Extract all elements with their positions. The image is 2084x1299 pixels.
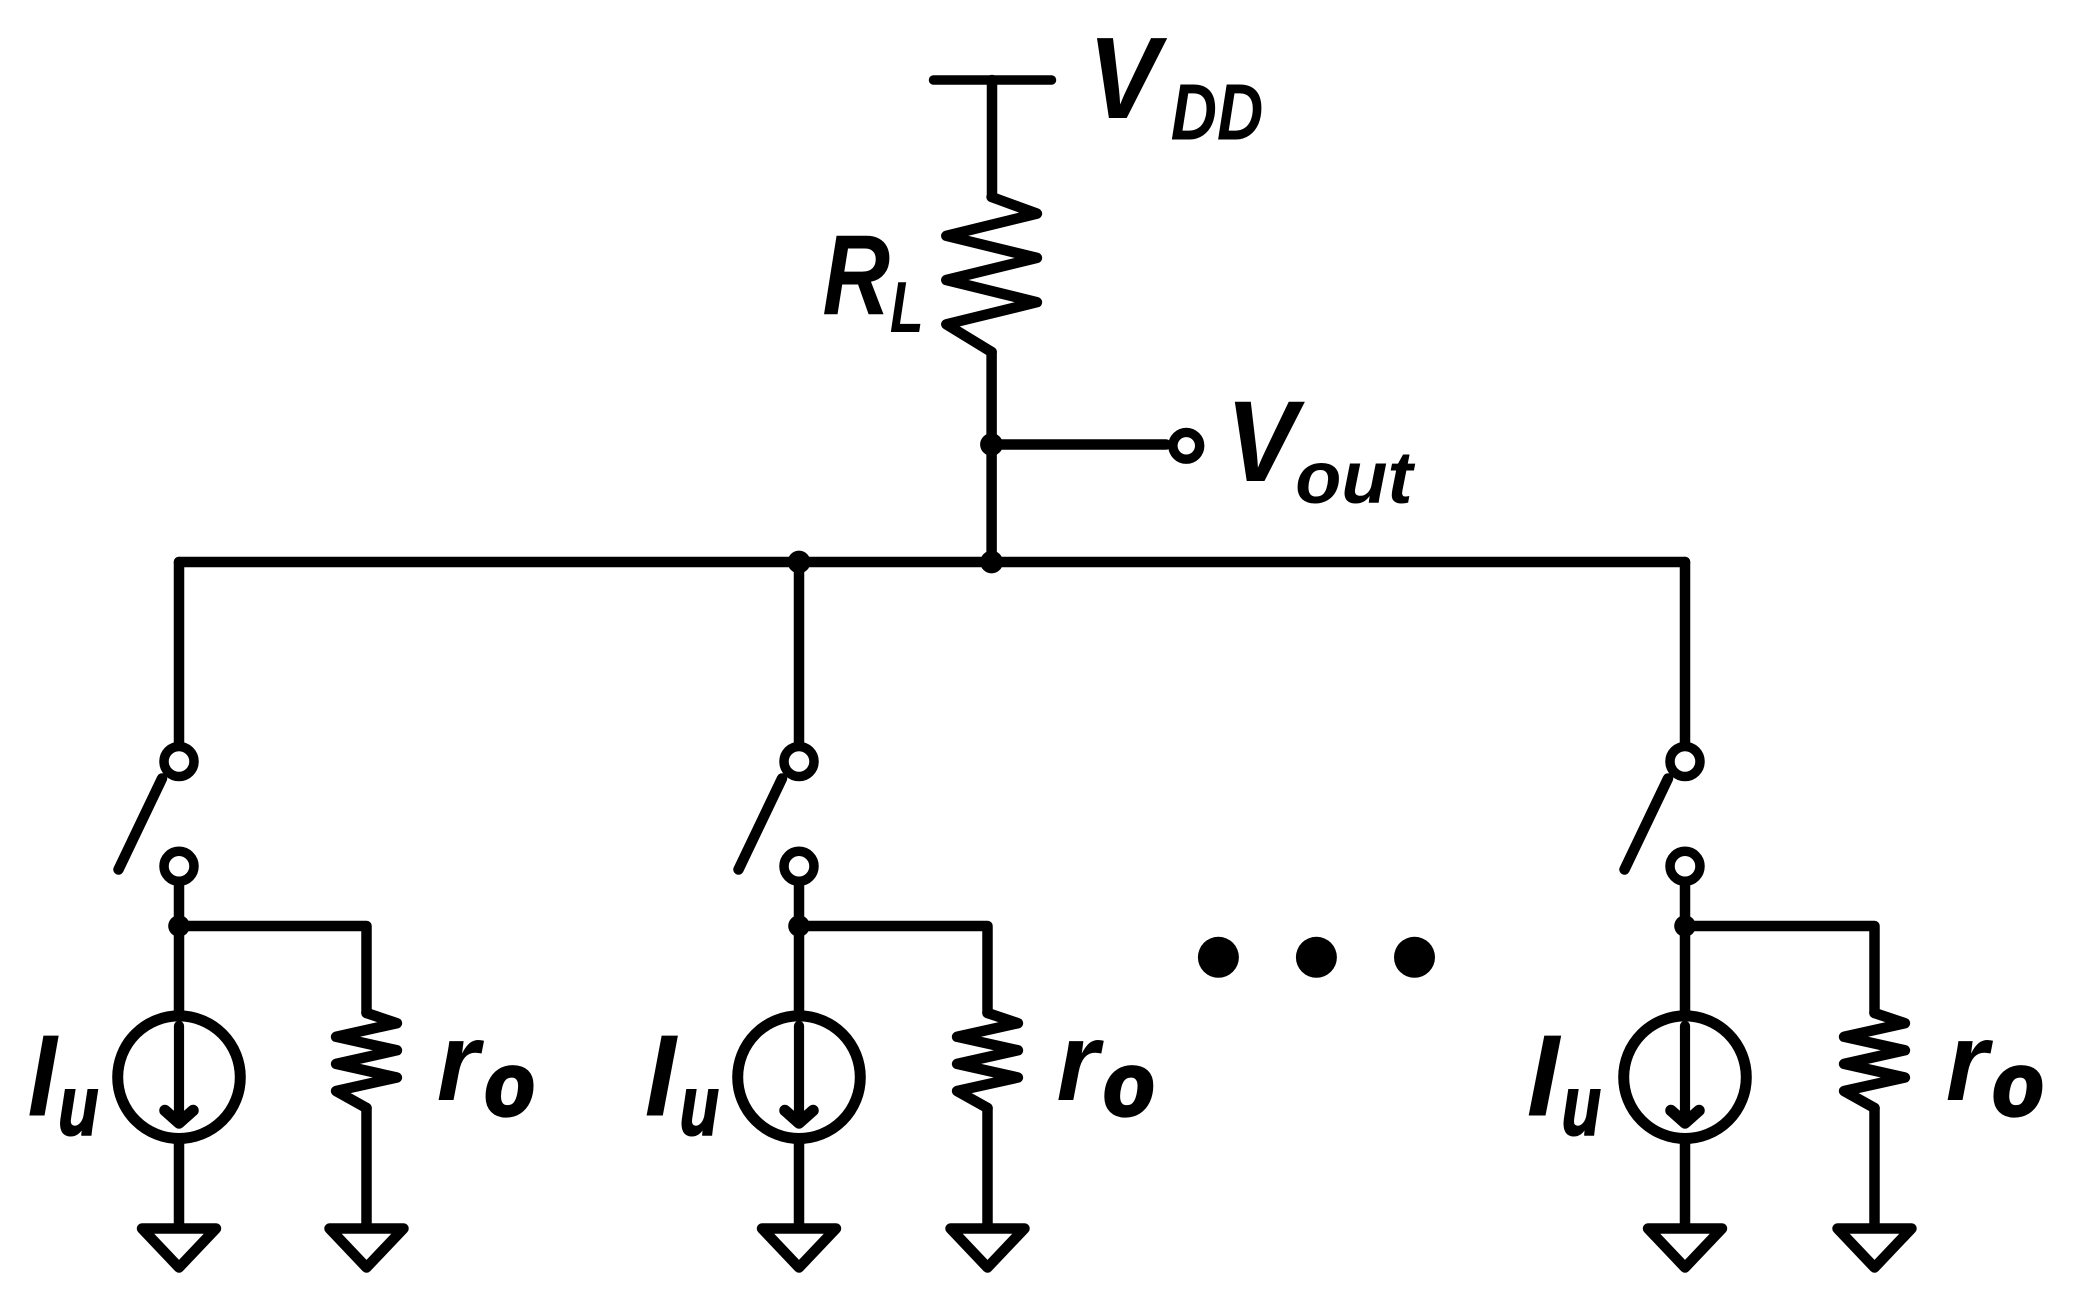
svg-text:I: I: [645, 1011, 679, 1141]
wire junction to resistor rO3: [1685, 926, 1875, 1013]
svg-text:out: out: [1295, 435, 1416, 518]
switch S1 top contact circle: [164, 747, 194, 777]
wire bus down to switch S3 top contact (right branch): [1680, 562, 1691, 744]
junction dot bus / RL branch: [980, 551, 1003, 574]
wire current source I3 to ground: [1680, 1142, 1691, 1226]
wire current source I1 to ground: [174, 1142, 185, 1226]
svg-text:r: r: [437, 1000, 484, 1124]
current source I1 (Iu) circle: [118, 1016, 241, 1139]
ground symbol under current source I2: [762, 1229, 836, 1268]
svg-text:r: r: [1946, 1000, 1993, 1124]
wire output bus: [179, 557, 1685, 568]
svg-text:o: o: [485, 1035, 534, 1133]
current source I3 (Iu) circle: [1624, 1016, 1747, 1139]
label rO (right): [1946, 1000, 2043, 1135]
junction dot middle branch node: [788, 915, 810, 937]
switch S1 bottom contact circle: [164, 851, 194, 881]
svg-text:L: L: [890, 267, 924, 348]
current source I1 arrow shaft: [174, 1026, 184, 1118]
wire node to Vout terminal: [992, 439, 1167, 450]
wire resistor rO2 to ground: [982, 1108, 993, 1226]
current source I2 arrowhead chevron: [785, 1111, 813, 1124]
switch S3 top contact circle: [1670, 747, 1700, 777]
junction dot left branch node: [168, 915, 190, 937]
wire bus down to switch S2 top contact (middle branch): [794, 562, 805, 744]
wire VDD bar to resistor RL top: [987, 80, 998, 197]
label rO (left): [437, 1000, 534, 1134]
Vout open terminal circle: [1173, 432, 1200, 459]
wire junction to resistor rO1: [179, 926, 367, 1013]
current source I2 arrow shaft: [794, 1026, 804, 1118]
wire switch S1 bottom contact to junction node: [174, 884, 185, 926]
svg-text:o: o: [1104, 1036, 1154, 1134]
wire current source I2 to ground: [794, 1142, 805, 1226]
label VDD: [1088, 13, 1263, 157]
svg-text:R: R: [822, 213, 890, 340]
current source I1 arrowhead chevron: [165, 1111, 193, 1124]
ground symbol under resistor rO2: [951, 1229, 1025, 1268]
switch S2 top contact circle: [784, 747, 814, 777]
resistor rO2 zigzag: [957, 1013, 1018, 1108]
svg-text:I: I: [28, 1010, 59, 1141]
ground symbol under resistor rO1: [330, 1229, 404, 1268]
node Vout junction dot: [980, 433, 1003, 456]
ellipsis dots (repeated branches): [1198, 937, 1435, 978]
current source I2 (Iu) circle: [738, 1016, 861, 1139]
svg-text:r: r: [1057, 1000, 1104, 1124]
wire RL bottom through output node down to bus: [986, 352, 997, 562]
switch S1 lever arm: [119, 779, 163, 870]
wire resistor rO3 to ground: [1869, 1108, 1880, 1226]
svg-text:o: o: [1993, 1036, 2043, 1134]
label RL: [822, 213, 923, 348]
resistor RL zigzag: [946, 197, 1037, 352]
wire junction to current source I2: [794, 926, 805, 1012]
resistor rO1 zigzag: [336, 1013, 397, 1108]
label Iu (right): [1527, 1010, 1601, 1153]
svg-text:I: I: [1527, 1010, 1562, 1140]
current source I3 arrow shaft: [1680, 1026, 1690, 1118]
label Iu (left): [28, 1010, 99, 1154]
ground symbol under resistor rO3: [1838, 1229, 1912, 1268]
ground symbol under current source I1: [142, 1229, 216, 1268]
svg-text:u: u: [58, 1059, 98, 1154]
svg-text:DD: DD: [1171, 68, 1263, 157]
label rO (middle): [1057, 1000, 1154, 1135]
svg-text:u: u: [680, 1058, 719, 1152]
wire switch S3 bottom contact to junction node: [1680, 884, 1691, 926]
ground symbol under current source I3: [1648, 1229, 1722, 1268]
junction dot bus / middle branch: [788, 551, 811, 574]
current source I3 arrowhead chevron: [1671, 1111, 1699, 1124]
label Vout: [1226, 376, 1416, 518]
wire junction to resistor rO2: [799, 926, 988, 1013]
wire switch S2 bottom contact to junction node: [794, 884, 805, 926]
switch S3 lever arm: [1625, 779, 1669, 870]
svg-text:u: u: [1562, 1058, 1601, 1152]
wire junction to current source I1: [174, 926, 185, 1012]
label Iu (middle): [645, 1011, 719, 1153]
junction dot right branch node: [1674, 915, 1696, 937]
power VDD rail bar: [934, 75, 1052, 85]
svg-text:V: V: [1088, 13, 1168, 143]
switch S2 lever arm: [739, 779, 783, 870]
wire bus down to switch S1 top contact (left branch): [174, 562, 185, 744]
wire resistor rO1 to ground: [361, 1108, 372, 1226]
svg-text:V: V: [1226, 376, 1306, 506]
switch S2 bottom contact circle: [784, 851, 814, 881]
switch S3 bottom contact circle: [1670, 851, 1700, 881]
resistor rO3 zigzag: [1844, 1013, 1905, 1108]
wire junction to current source I3: [1680, 926, 1691, 1012]
